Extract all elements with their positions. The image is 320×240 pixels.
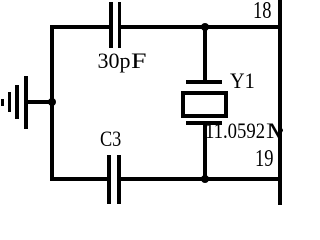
label Y1 [230,70,255,92]
ground: bar 4 (shortest) [1,99,4,107]
crystal Y1: top plate [186,80,222,84]
value label 11.0592M [205,120,286,142]
wire: top horizontal segment from left corner to 30pF left plate [50,25,110,29]
pin number 18 [253,0,271,23]
crystal Y1: body [181,91,228,118]
junction dot on bottom wire (crystal to pin 19) [201,175,209,183]
capacitor 30pF (top): right plate [118,2,122,49]
ground: bar 3 [8,92,12,113]
label C3 [100,128,121,150]
ground: horizontal stub [26,100,54,104]
ground: bar 1 (tallest) [24,76,28,129]
capacitor C3 (bottom): left plate [107,155,111,204]
capacitor C3 (bottom): right plate [117,155,121,204]
crystal Y1: top lead [203,29,207,80]
junction dot on top wire (crystal to pin 18) [201,23,209,31]
crystal Y1: bottom plate [186,121,222,125]
wire: left vertical wire [50,25,54,181]
value label 30pF [98,50,143,72]
chip left border (IC outline edge) [278,0,282,205]
crystal Y1: bottom lead [203,125,207,177]
ground: bar 2 [15,85,19,119]
wire: bottom horizontal segment from left corner to C3 left plate [50,177,108,181]
pin number 19 [255,147,273,171]
capacitor 30pF (top): left plate [109,2,113,49]
wire: bottom horizontal segment from C3 right plate to chip border (pin 19 net, XTAL2) [120,177,281,181]
junction dot on left wire at ground [48,98,56,106]
wire: top horizontal segment from 30pF right plate to chip border (pin 18 net, XTAL1) [120,25,281,29]
